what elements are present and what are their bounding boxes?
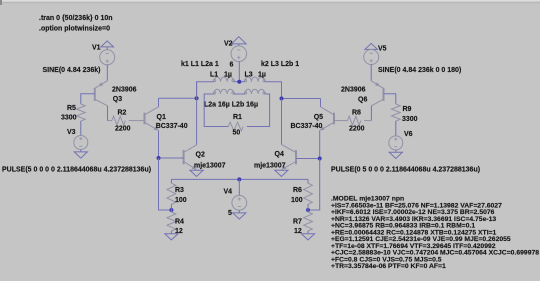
svg-text:5: 5 bbox=[228, 210, 232, 217]
svg-text:Q4: Q4 bbox=[275, 151, 284, 158]
wire supply rail bbox=[171, 178, 308, 180]
ground above V2 bbox=[232, 37, 247, 44]
inductor L2a bbox=[214, 89, 234, 94]
node dot Q1 emitter Q2 base bbox=[157, 156, 161, 160]
svg-text:k1 L1 L2a 1: k1 L1 L2a 1 bbox=[181, 61, 219, 68]
svg-text:Q1: Q1 bbox=[157, 114, 166, 121]
voltage source V4 bbox=[232, 195, 247, 210]
node dot right collector node bbox=[280, 97, 284, 101]
svg-text:2N3906: 2N3906 bbox=[341, 87, 366, 94]
ground above V1 bbox=[101, 41, 114, 47]
voltage source V6 bbox=[389, 136, 403, 150]
ground above V5 bbox=[365, 43, 378, 49]
node dot R3 R4 junction bbox=[169, 208, 173, 212]
wire Q2 base bbox=[159, 157, 184, 159]
ground below V6 bbox=[395, 150, 397, 152]
inductor L3 bbox=[245, 77, 265, 82]
svg-text:.tran 0 {50/236k} 0 10n: .tran 0 {50/236k} 0 10n bbox=[39, 15, 113, 22]
svg-text:L2a 16µ L2b 16µ: L2a 16µ L2b 16µ bbox=[204, 101, 258, 108]
resistor R9 bbox=[391, 104, 400, 121]
svg-text:mje13007: mje13007 bbox=[254, 163, 286, 170]
wire primary left bbox=[197, 82, 214, 99]
wire primary center bbox=[234, 81, 245, 83]
wire Q1 collector to node bbox=[159, 97, 197, 99]
node dot center tap bbox=[237, 80, 241, 84]
voltage source V5 bbox=[364, 50, 379, 65]
svg-text:R4: R4 bbox=[175, 219, 184, 226]
svg-text:R9: R9 bbox=[403, 106, 412, 113]
wire primary right bbox=[265, 82, 282, 99]
svg-text:SINE(0 4.84 236k 0 0 180): SINE(0 4.84 236k 0 0 180) bbox=[378, 67, 461, 74]
resistor R1 bbox=[228, 122, 243, 131]
node dot R6 R7 junction bbox=[306, 208, 310, 212]
svg-text:R6: R6 bbox=[293, 187, 302, 194]
svg-text:R1: R1 bbox=[233, 114, 242, 121]
wire Q6 collector to R8 bbox=[370, 106, 372, 121]
ground below V4 bbox=[238, 210, 240, 213]
svg-text:R7: R7 bbox=[293, 219, 302, 226]
inductor L2b bbox=[245, 89, 265, 94]
transistor Q3 2N3906 bbox=[94, 88, 96, 101]
resistor R8 bbox=[334, 120, 348, 122]
wire R5 to V3 bbox=[80, 121, 82, 136]
resistor R4 bbox=[170, 210, 172, 212]
ground Q2 emitter bbox=[190, 170, 203, 176]
svg-text:R8: R8 bbox=[352, 110, 361, 117]
wire Q1 collector up bbox=[158, 98, 160, 107]
svg-text:12: 12 bbox=[294, 228, 302, 235]
svg-text:BC337-40: BC337-40 bbox=[156, 123, 188, 130]
wire Q1 emitter down bbox=[158, 131, 160, 159]
svg-text:.option plotwinsize=0: .option plotwinsize=0 bbox=[39, 26, 110, 33]
svg-text:R5: R5 bbox=[67, 105, 76, 112]
svg-text:V1: V1 bbox=[92, 45, 101, 52]
svg-text:Q5: Q5 bbox=[314, 114, 323, 121]
wire Q3 collector to R2 bbox=[107, 106, 109, 121]
svg-text:PULSE(0 5 0 0 0 2.118644068u 4: PULSE(0 5 0 0 0 2.118644068u 4.237288136… bbox=[331, 166, 480, 173]
wire rail to V4 bbox=[238, 179, 240, 195]
wire left collector node vertical bbox=[196, 82, 198, 145]
svg-text:50: 50 bbox=[233, 129, 241, 136]
svg-text:V6: V6 bbox=[404, 131, 413, 138]
wire secondary middle bbox=[234, 93, 245, 95]
svg-text:L3: L3 bbox=[245, 72, 253, 79]
wire V1 to Q3 emitter bbox=[106, 65, 108, 81]
svg-text:Q2: Q2 bbox=[196, 151, 205, 158]
wire feedback right bbox=[308, 159, 320, 211]
svg-text:100: 100 bbox=[175, 197, 187, 204]
node dot rail V4 bbox=[237, 177, 241, 181]
resistor R3 bbox=[170, 179, 172, 183]
svg-text:1µ: 1µ bbox=[258, 72, 266, 79]
ground below V3 bbox=[80, 150, 82, 152]
svg-text:R3: R3 bbox=[175, 187, 184, 194]
ground below R7 bbox=[301, 234, 314, 240]
svg-text:L1: L1 bbox=[210, 72, 218, 79]
resistor R6 bbox=[307, 179, 309, 183]
wire Q3 base to R5 bbox=[81, 94, 95, 104]
svg-text:V3: V3 bbox=[67, 129, 76, 136]
svg-text:+TR=3.35784e-06 PTF=0 KF=0 AF=: +TR=3.35784e-06 PTF=0 KF=0 AF=1 bbox=[331, 263, 446, 270]
wire right collector node vertical bbox=[281, 99, 283, 145]
wire Q5 collector to node bbox=[282, 98, 321, 100]
svg-text:1µ: 1µ bbox=[224, 72, 232, 79]
wire Q5 collector up bbox=[320, 99, 322, 107]
svg-text:Q3: Q3 bbox=[113, 96, 122, 103]
ground Q4 emitter bbox=[275, 170, 288, 176]
wire feedback left bbox=[159, 158, 172, 210]
transistor Q1 BC337-40 bbox=[144, 113, 146, 125]
wire V2 to transformer center tap bbox=[238, 62, 240, 82]
transistor Q6 2N3906 bbox=[383, 88, 385, 101]
resistor R5 bbox=[76, 104, 85, 121]
svg-text:V4: V4 bbox=[224, 188, 233, 195]
node dot Q5 emitter Q4 base bbox=[318, 157, 322, 161]
voltage source V3 bbox=[74, 136, 88, 150]
wire Q6 base to R9 bbox=[384, 94, 396, 104]
resistor R2 bbox=[108, 120, 112, 122]
ground below R4 bbox=[165, 234, 178, 240]
svg-text:R2: R2 bbox=[118, 110, 127, 117]
transistor Q4 mje13007 bbox=[295, 150, 297, 164]
svg-text:2N3906: 2N3906 bbox=[112, 87, 137, 94]
svg-text:mje13007: mje13007 bbox=[194, 163, 226, 170]
svg-text:Q6: Q6 bbox=[358, 97, 367, 104]
node dot left collector node bbox=[195, 96, 199, 100]
svg-text:BC337-40: BC337-40 bbox=[291, 123, 323, 130]
svg-text:k2 L3 L2b 1: k2 L3 L2b 1 bbox=[261, 61, 299, 68]
svg-text:100: 100 bbox=[291, 197, 303, 204]
svg-text:3300: 3300 bbox=[61, 114, 77, 121]
svg-text:6: 6 bbox=[230, 61, 234, 68]
resistor R7 bbox=[307, 210, 309, 212]
wire R9 to V6 bbox=[395, 121, 397, 136]
wire V5 to Q6 emitter bbox=[370, 65, 372, 81]
wire secondary left side bbox=[204, 94, 228, 127]
inductor L1 bbox=[214, 77, 234, 82]
voltage source V1 bbox=[100, 50, 115, 65]
voltage source V2 bbox=[231, 46, 247, 62]
svg-text:V2: V2 bbox=[224, 40, 233, 47]
svg-text:2200: 2200 bbox=[349, 125, 365, 132]
svg-text:2200: 2200 bbox=[115, 125, 131, 132]
wire Q5 emitter down bbox=[319, 131, 321, 159]
svg-text:PULSE(5 0 0 0 0 2.118644068u 4: PULSE(5 0 0 0 0 2.118644068u 4.237288136… bbox=[2, 166, 151, 173]
svg-text:SINE(0 4.84 236k): SINE(0 4.84 236k) bbox=[43, 67, 101, 74]
transistor Q2 mje13007 bbox=[183, 150, 185, 164]
wire Q4 base bbox=[296, 158, 320, 160]
svg-text:V5: V5 bbox=[378, 45, 387, 52]
transistor Q5 BC337-40 bbox=[333, 113, 335, 125]
wire secondary right side bbox=[247, 94, 270, 127]
svg-text:3300: 3300 bbox=[402, 116, 418, 123]
